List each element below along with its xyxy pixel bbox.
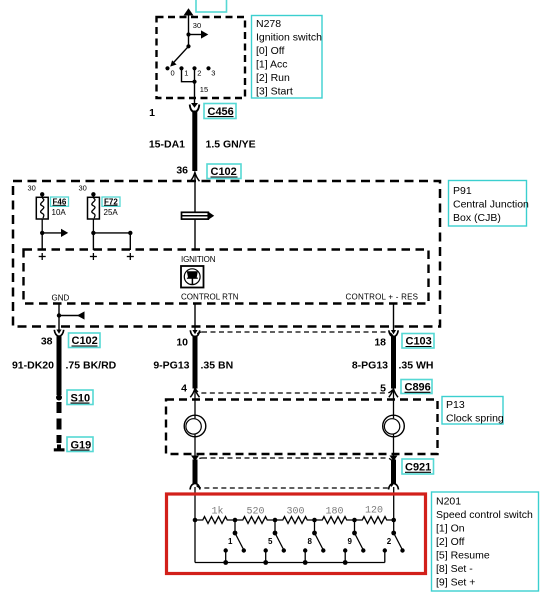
switch pin 9: pivot stem	[354, 520, 356, 533]
svg-text:1.5 GN/YE: 1.5 GN/YE	[206, 139, 256, 151]
P13 clock spring dashed outline	[166, 400, 438, 455]
svg-text:[1] On: [1] On	[436, 523, 465, 535]
switch pin 5: fixed contact	[264, 548, 268, 552]
pin + (F46 feed)	[39, 253, 46, 260]
wire: F72 output branch right	[93, 232, 130, 234]
connector C102 arrowhead	[190, 173, 199, 182]
svg-text:38: 38	[41, 335, 53, 347]
switch pin 5: pivot	[273, 531, 278, 536]
svg-text:1: 1	[184, 69, 188, 78]
svg-text:25A: 25A	[104, 208, 119, 217]
svg-text:4: 4	[181, 382, 187, 394]
svg-text:IGNITION: IGNITION	[181, 255, 216, 264]
CJB internal dashed sub-box (switch module)	[24, 250, 429, 304]
switch pin 2: pivot stem	[393, 520, 395, 533]
junction: pin 9 contact on bus	[343, 560, 348, 565]
fuse F46 10A	[36, 192, 48, 233]
N201 highlight box (red)	[167, 494, 426, 574]
svg-text:C102: C102	[72, 335, 98, 347]
wire: GND pin to C102	[58, 304, 60, 331]
node: tap pin 9	[352, 518, 357, 523]
svg-text:520: 520	[247, 507, 265, 518]
svg-text:[3] Start: [3] Start	[256, 86, 293, 98]
connector label C102	[207, 164, 241, 179]
wire: C102 pin 36 into CJB ignition feed	[194, 173, 196, 250]
wire 9-PG13 .35 BN (thick)	[193, 336, 198, 389]
svg-text:Clock spring: Clock spring	[446, 413, 504, 425]
svg-text:300: 300	[287, 507, 305, 518]
svg-text:P91: P91	[453, 185, 472, 197]
node on GND wire	[57, 313, 61, 317]
wire 15-DA1 1.5 GN/YE (thick)	[192, 111, 197, 172]
node: F72 output	[91, 231, 95, 235]
svg-text:15: 15	[200, 85, 208, 94]
connector C896 arrowhead (right)	[389, 389, 398, 398]
svg-text:P13: P13	[446, 399, 465, 411]
wire: clock spring to switch (right, thick)	[391, 460, 396, 484]
terminal 2	[192, 66, 196, 70]
svg-text:1: 1	[149, 107, 155, 119]
wire: CONTROL RTN pin to C103	[194, 304, 196, 332]
wire into N201 (left rail)	[194, 487, 196, 563]
wire: CONTROL + - RES pin to C103	[393, 304, 395, 332]
svg-text:15-DA1: 15-DA1	[149, 139, 185, 151]
resistor 1k	[195, 517, 235, 524]
switch pin 2: fixed contact	[383, 548, 387, 552]
resistor 120	[355, 517, 394, 524]
svg-text:C456: C456	[208, 106, 234, 118]
svg-text:0: 0	[171, 69, 175, 78]
svg-text:9-PG13: 9-PG13	[153, 359, 189, 371]
svg-text:C103: C103	[406, 336, 432, 348]
node: rotor pivot	[186, 44, 190, 48]
connector label C896	[401, 380, 432, 394]
wire 91-DK20 .75 BK/RD (thick)	[57, 336, 62, 396]
ground label G19	[67, 437, 93, 452]
switch pin 8: arm	[315, 533, 324, 550]
connector C103 (arrow into socket, right)	[389, 330, 398, 337]
svg-text:C921: C921	[405, 462, 431, 474]
svg-text:[2] Run: [2] Run	[256, 72, 290, 84]
node: tap pin 8	[312, 518, 317, 523]
pin + (F72 branch)	[127, 253, 134, 260]
svg-text:9: 9	[348, 537, 353, 546]
switch pin 1: arm	[235, 533, 244, 550]
ground G19	[54, 445, 65, 452]
svg-text:C896: C896	[405, 382, 431, 394]
svg-text:[5] Resume: [5] Resume	[436, 550, 490, 562]
svg-text:36: 36	[176, 165, 188, 177]
svg-text:N201: N201	[436, 496, 461, 508]
wire into N201 (right rail)	[393, 487, 395, 520]
wire: terminal 2 output pin 15	[194, 68, 196, 103]
node: accessory feed junction	[186, 32, 190, 36]
node: tap pin 1	[233, 518, 238, 523]
connector C103 (arrow into socket, left)	[190, 330, 199, 337]
switch pin 5: arm	[275, 533, 284, 550]
connector label C102 (lower)	[69, 333, 101, 348]
switch pin 2: arm	[394, 533, 403, 550]
switch pin 2: pivot	[391, 531, 396, 536]
svg-text:180: 180	[326, 507, 344, 518]
junction: F72 branch corner	[128, 231, 132, 235]
terminal 0	[165, 66, 169, 70]
wire: terminal 30 feed into ignition switch	[188, 14, 190, 35]
connector label C921	[402, 459, 434, 474]
wire: S10 to ground G19 (dashed thick)	[57, 402, 62, 443]
switch pin 9: fixed contact	[343, 548, 347, 552]
resistor 520	[235, 517, 275, 524]
fuse F72 25A	[88, 192, 100, 233]
svg-text:10A: 10A	[52, 208, 67, 217]
wire: F72 output down to module	[92, 233, 94, 250]
svg-text:30: 30	[79, 184, 87, 193]
svg-text:3: 3	[211, 69, 215, 78]
splice label S10	[67, 390, 93, 405]
switch pin 1: pivot stem	[234, 520, 236, 533]
switch pin 9: pivot	[352, 531, 357, 536]
svg-text:2: 2	[387, 537, 392, 546]
junction: pin 1 contact on bus	[223, 560, 228, 565]
P91 label box	[449, 181, 530, 227]
svg-text:8: 8	[308, 537, 313, 546]
connector C456 (arrow into socket)	[190, 103, 200, 112]
wire: N201 common bus	[195, 562, 385, 564]
svg-text:[2] Off: [2] Off	[436, 536, 464, 548]
connector C102 (arrow into socket, wire 38)	[54, 330, 63, 337]
svg-text:C102: C102	[211, 166, 237, 178]
svg-text:CONTROL RTN: CONTROL RTN	[181, 293, 239, 302]
connector C921 arrow (right)	[390, 456, 398, 462]
svg-text:120: 120	[365, 506, 383, 517]
switch pin 9: arm	[355, 533, 364, 550]
wire: F72 branch down to module	[129, 233, 131, 250]
svg-text:18: 18	[374, 336, 386, 348]
ignition bus symbol	[182, 212, 215, 220]
svg-text:[9] Set +: [9] Set +	[436, 577, 475, 589]
svg-text:G19: G19	[71, 439, 92, 451]
resistor 300	[275, 517, 315, 524]
wire: rotor arm pointing at position 0	[170, 46, 188, 66]
svg-text:10: 10	[176, 336, 188, 348]
svg-text:S10: S10	[71, 392, 91, 404]
in-line connector dashed outline (C103 to C896)	[195, 332, 394, 393]
junction: pin 5 contact on bus	[263, 560, 268, 565]
switch pin 1: pivot	[233, 531, 238, 536]
connector C896 arrowhead (left)	[190, 389, 199, 398]
wire: F46 output down to module	[41, 233, 43, 250]
svg-text:CONTROL + - RES: CONTROL + - RES	[346, 293, 419, 302]
svg-text:GND: GND	[52, 294, 70, 303]
resistor 180	[315, 517, 355, 524]
fuse label F72	[102, 197, 120, 206]
node: tap pin 5	[273, 518, 278, 523]
clock spring coil (right)	[383, 415, 405, 437]
terminal 1	[179, 66, 183, 70]
node: F46 output	[40, 231, 44, 235]
svg-text:.35 BN: .35 BN	[201, 359, 234, 371]
svg-text:91-DK20: 91-DK20	[12, 359, 54, 371]
connector socket into N201 (right)	[389, 483, 399, 489]
switch pin 8: fixed contact	[303, 548, 307, 552]
wire: terminal 1 to terminal 2 jumper	[182, 68, 195, 81]
N278 ignition switch label box	[252, 16, 323, 99]
in-line connector dashed outline (C921)	[195, 458, 394, 488]
wire 8-PG13 .35 WH (thick)	[391, 336, 396, 389]
wire stub with incoming arrow (to GND node)	[59, 311, 85, 319]
switch pin 8: pivot	[312, 531, 317, 536]
connector label C103	[402, 334, 434, 349]
svg-text:30: 30	[28, 184, 36, 193]
wire: clock spring right lead	[393, 389, 395, 456]
svg-text:N278: N278	[256, 18, 281, 30]
svg-text:[0] Off: [0] Off	[256, 45, 284, 57]
connector label C456	[204, 104, 236, 119]
svg-text:5: 5	[380, 382, 386, 394]
junction: jumper joins terminal 2 output	[192, 80, 196, 84]
wire: junction 30 to rotor pivot	[188, 35, 190, 47]
wire: clock spring left lead	[194, 389, 196, 456]
splice S10	[56, 395, 62, 401]
svg-text:2: 2	[197, 69, 201, 78]
off-page connector label box (cut off at top)	[196, 0, 227, 12]
switch pin 5: pivot stem	[274, 520, 276, 533]
svg-text:Speed control switch: Speed control switch	[436, 509, 533, 521]
svg-text:Central Junction: Central Junction	[453, 199, 529, 211]
node: resistor chain right end	[391, 518, 396, 523]
connector socket into N201 (left)	[190, 483, 200, 489]
svg-text:5: 5	[268, 537, 273, 546]
fuse label F46	[51, 197, 69, 206]
svg-text:30: 30	[193, 21, 201, 30]
svg-text:1: 1	[228, 537, 233, 546]
wire: accessory feed stub with arrow	[189, 30, 209, 38]
svg-text:.75 BK/RD: .75 BK/RD	[66, 359, 117, 371]
P91 CJB outer dashed outline	[13, 181, 440, 327]
clock spring coil (left)	[184, 415, 206, 437]
svg-text:[8] Set -: [8] Set -	[436, 563, 473, 575]
off-page arrow (feed out top)	[184, 8, 194, 15]
junction: pin 8 contact on bus	[303, 560, 308, 565]
wire: clock spring to switch (left, thick)	[193, 460, 198, 484]
svg-text:Ignition switch: Ignition switch	[256, 32, 322, 44]
wire: F46 output branch with arrow	[42, 229, 68, 237]
node: resistor chain left end	[193, 518, 198, 523]
N201 label box	[432, 492, 539, 591]
connector C921 arrow (left)	[191, 456, 199, 462]
svg-text:8-PG13: 8-PG13	[352, 359, 388, 371]
svg-text:[1] Acc: [1] Acc	[256, 59, 288, 71]
ignition switch module symbol (circle in square)	[181, 266, 204, 288]
switch pin 1: fixed contact	[224, 548, 228, 552]
pin + (F72 feed)	[90, 253, 97, 260]
svg-text:1k: 1k	[212, 506, 224, 518]
switch pin 8: pivot stem	[314, 520, 316, 533]
P13 label box	[442, 397, 504, 425]
ignition switch N278 dashed outline	[157, 17, 246, 98]
svg-text:Box (CJB): Box (CJB)	[453, 212, 501, 224]
svg-text:.35 WH: .35 WH	[399, 359, 434, 371]
terminal 3	[206, 66, 210, 70]
